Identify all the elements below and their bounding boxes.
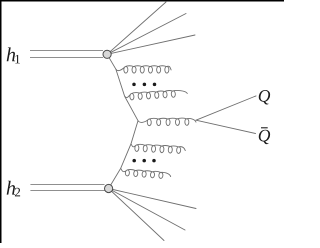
antiquark line to Qbar — [196, 120, 256, 133]
hadron blob (bottom) — [105, 184, 113, 192]
lower parton cascade line — [109, 121, 138, 189]
beam remnant line (top 2) — [107, 14, 186, 55]
label Q — [259, 90, 270, 104]
quark line to Q — [196, 96, 256, 120]
gluon g1 (upper cascade, first emission) — [116, 66, 171, 73]
ellipsis dots (lower cascade) — [132, 159, 136, 163]
label h1 — [7, 47, 20, 63]
hadron h1 double line — [30, 51, 103, 58]
label h2 — [7, 181, 20, 197]
label Qbar — [259, 130, 270, 144]
hadron blob (top) — [103, 50, 111, 58]
beam remnant line (top 1) — [107, 2, 166, 54]
hadron h2 double line — [30, 185, 104, 191]
gluon g2 (upper cascade, second emission) — [125, 89, 188, 100]
gluon g3 (s-channel gluon to quark pair) — [138, 118, 196, 126]
beam remnant line (bottom 3) — [109, 189, 164, 241]
label Qbar overline — [261, 127, 268, 129]
frame top border — [0, 0, 284, 2]
gluon g5 (lower cascade emission) — [120, 168, 171, 179]
frame left border — [0, 0, 2, 243]
gluon g4 (lower cascade emission) — [131, 144, 186, 154]
beam remnant line (top 3) — [107, 35, 195, 54]
upper parton cascade line — [107, 54, 138, 120]
beam remnant line (bottom 2) — [109, 189, 185, 231]
ellipsis dots (upper cascade) — [132, 83, 136, 87]
beam remnant line (bottom 1) — [109, 189, 196, 209]
